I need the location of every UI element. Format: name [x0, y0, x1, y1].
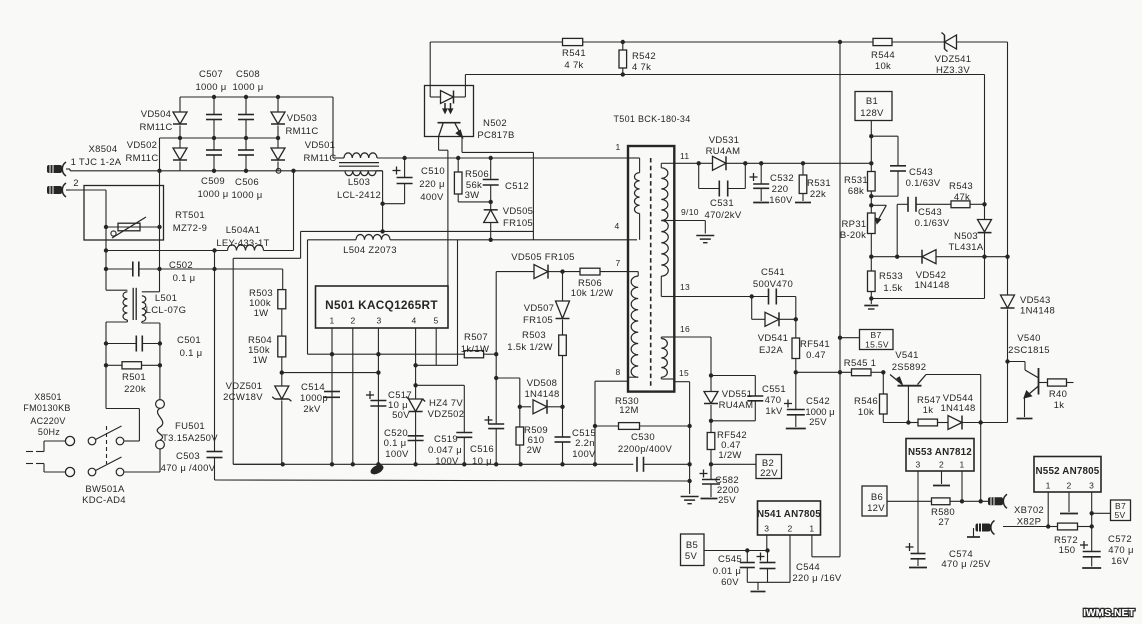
svg-text:VD543: VD543	[1020, 295, 1051, 306]
svg-text:4: 4	[411, 316, 416, 326]
connector XB702 pin 1	[988, 494, 1044, 516]
wire pin4	[415, 328, 417, 464]
switch BW501A contact 1	[65, 426, 123, 446]
svg-text:X8501: X8501	[34, 392, 62, 402]
node	[982, 255, 986, 259]
resistor R530	[595, 396, 690, 429]
svg-text:1N4148: 1N4148	[940, 403, 975, 414]
wire	[159, 227, 161, 292]
node	[157, 225, 161, 229]
wire	[377, 157, 405, 159]
resistor R503 second	[507, 320, 566, 407]
node	[593, 424, 597, 428]
svg-text:60V: 60V	[721, 577, 739, 588]
wire	[66, 169, 180, 171]
svg-text:VDZ502: VDZ502	[428, 409, 465, 420]
node	[281, 462, 285, 466]
svg-text:VD505: VD505	[503, 206, 534, 217]
node	[869, 255, 873, 259]
svg-text:C501: C501	[177, 335, 201, 346]
wire	[674, 337, 711, 376]
diode VD504	[140, 97, 188, 138]
svg-text:10k: 10k	[858, 407, 874, 418]
resistor R504 body	[248, 335, 286, 366]
svg-text:12M: 12M	[619, 405, 638, 416]
wire	[674, 221, 705, 234]
connector X8504 plug 1	[47, 144, 122, 176]
wire	[281, 357, 283, 386]
svg-text:MZ72-9: MZ72-9	[173, 223, 208, 234]
svg-text:N552 AN7805: N552 AN7805	[1036, 466, 1100, 477]
svg-text:B-20k: B-20k	[840, 230, 866, 241]
wire	[416, 385, 465, 432]
wire	[160, 137, 279, 139]
node	[104, 225, 108, 229]
svg-text:R544: R544	[871, 50, 895, 61]
diode VD551	[704, 376, 753, 421]
svg-text:0.01 μ: 0.01 μ	[713, 566, 741, 577]
node	[376, 352, 380, 375]
transistor V541 2S5892	[890, 350, 981, 423]
wire pin1 N552	[1047, 492, 1049, 527]
connector XB702 pin 2	[967, 517, 1041, 538]
svg-text:RP31: RP31	[842, 219, 867, 230]
wire	[465, 74, 984, 76]
svg-text:3: 3	[376, 316, 381, 326]
svg-text:16: 16	[680, 324, 690, 334]
svg-text:0.47: 0.47	[806, 350, 826, 361]
LED in N502	[441, 75, 466, 104]
node	[838, 336, 842, 340]
diode VD505 second	[511, 252, 575, 279]
switch BW501A contact 2	[65, 426, 126, 506]
ground	[696, 236, 714, 243]
shunt regulator N503 TL431A	[948, 220, 991, 257]
resistor R547	[908, 395, 948, 426]
svg-text:1N4148: 1N4148	[1020, 306, 1055, 317]
svg-text:0.1 μ: 0.1 μ	[180, 348, 203, 359]
wire	[376, 171, 383, 232]
transformer core	[650, 158, 652, 387]
svg-text:C545: C545	[718, 554, 742, 565]
T501 secondary 9/10-13	[661, 207, 698, 297]
svg-text:C532: C532	[770, 173, 794, 184]
wire	[180, 170, 383, 172]
capacitor C543 second	[897, 197, 950, 257]
diode VD502	[126, 138, 188, 171]
svg-text:C507: C507	[199, 69, 223, 80]
resistor R506	[454, 158, 490, 202]
svg-text:HZ3.3V: HZ3.3V	[936, 65, 970, 76]
phototransistor in N502	[438, 123, 463, 138]
node	[280, 370, 284, 374]
svg-text:220 μ: 220 μ	[419, 179, 444, 190]
capacitor C574	[906, 543, 991, 570]
wire	[106, 365, 139, 441]
svg-text:C572: C572	[1108, 534, 1132, 545]
resistor R580	[931, 498, 988, 528]
svg-text:B6: B6	[871, 492, 883, 503]
svg-text:L504A1: L504A1	[226, 225, 261, 236]
svg-text:68k: 68k	[848, 186, 864, 197]
svg-text:R542: R542	[632, 51, 656, 62]
svg-text:L504 Z2073: L504 Z2073	[343, 245, 397, 256]
svg-text:160V: 160V	[769, 195, 793, 206]
svg-text:0.1/63V: 0.1/63V	[906, 178, 941, 189]
voltage label B6	[862, 486, 887, 516]
svg-text:2.2n: 2.2n	[575, 438, 595, 449]
svg-text:VD531: VD531	[709, 135, 740, 146]
node	[709, 462, 713, 466]
resistor R531 22k	[795, 163, 831, 202]
svg-text:N502: N502	[483, 118, 507, 129]
wire	[430, 42, 440, 97]
svg-text:FR105: FR105	[503, 218, 533, 229]
capacitor C551	[711, 376, 786, 421]
resistor R572	[1048, 523, 1092, 556]
svg-text:VD505 FR105: VD505 FR105	[511, 252, 575, 263]
T501 secondary 16-15	[661, 324, 690, 379]
wire	[583, 41, 1008, 43]
svg-text:470 μ /25V: 470 μ /25V	[941, 559, 991, 570]
svg-text:1000p: 1000p	[300, 393, 328, 404]
capacitor C519	[428, 433, 472, 468]
svg-text:4 7k: 4 7k	[564, 60, 583, 71]
svg-text:C541: C541	[761, 267, 785, 278]
node	[838, 370, 842, 374]
svg-text:RM11C: RM11C	[126, 153, 159, 164]
svg-text:RM11C: RM11C	[304, 153, 337, 164]
svg-text:1000 μ: 1000 μ	[195, 82, 226, 93]
svg-text:1: 1	[1046, 481, 1051, 491]
wire	[548, 271, 563, 273]
node	[1046, 524, 1050, 528]
capacitor C507	[195, 69, 226, 138]
svg-text:100V: 100V	[572, 449, 596, 460]
svg-text:VD541: VD541	[758, 333, 789, 344]
capacitor C520	[384, 428, 424, 460]
resistor R40	[1039, 379, 1074, 411]
ground	[751, 582, 766, 591]
diode VD508	[520, 378, 563, 414]
svg-text:10k 1/2W: 10k 1/2W	[571, 288, 614, 299]
wire	[139, 269, 283, 290]
svg-text:L503: L503	[348, 177, 370, 188]
resistor R543	[916, 181, 985, 208]
wire	[1007, 42, 1009, 295]
svg-text:2S5892: 2S5892	[892, 362, 927, 373]
svg-text:C530: C530	[631, 432, 655, 443]
svg-text:VD503: VD503	[287, 113, 318, 124]
svg-text:KDC-AD4: KDC-AD4	[82, 495, 126, 506]
svg-text:2CW18V: 2CW18V	[223, 392, 263, 403]
wire	[430, 41, 562, 43]
svg-text:FR105: FR105	[523, 315, 553, 326]
wire	[496, 378, 520, 407]
wire pin1 N553	[961, 471, 963, 501]
diode VD543	[1001, 295, 1056, 423]
wire pin3	[377, 328, 379, 464]
wire	[124, 449, 160, 472]
node	[1005, 359, 1009, 363]
svg-text:9/10: 9/10	[681, 207, 699, 217]
ink blob	[369, 463, 385, 477]
node	[104, 267, 217, 271]
wire	[674, 162, 698, 164]
ground pin2 N553	[933, 471, 950, 486]
node	[709, 373, 713, 377]
svg-text:C516: C516	[470, 444, 494, 455]
node	[489, 238, 493, 242]
svg-text:VD507: VD507	[524, 303, 555, 314]
svg-text:1k: 1k	[923, 405, 934, 416]
svg-text:13: 13	[680, 282, 690, 292]
svg-text:C542: C542	[806, 396, 830, 407]
svg-text:7: 7	[615, 258, 620, 268]
inductor L504A1	[216, 225, 269, 251]
diode VD503	[271, 97, 319, 138]
svg-text:R533: R533	[879, 271, 903, 282]
node	[489, 200, 493, 204]
wire pin3 N541	[766, 535, 768, 551]
capacitor C508	[232, 69, 263, 138]
svg-text:5V: 5V	[685, 551, 698, 562]
svg-text:EJ2A: EJ2A	[759, 345, 783, 356]
wire	[747, 535, 790, 582]
svg-text:X82P: X82P	[1017, 517, 1041, 528]
svg-text:C544: C544	[796, 562, 820, 573]
wire	[984, 75, 986, 220]
svg-text:C551: C551	[762, 384, 786, 395]
node	[982, 202, 986, 206]
svg-text:27: 27	[938, 517, 949, 528]
watermark	[1083, 608, 1135, 619]
node	[869, 296, 873, 300]
wire	[281, 309, 283, 336]
svg-text:T3.15A250V: T3.15A250V	[162, 433, 218, 444]
wire	[689, 382, 691, 494]
resistor RF541	[792, 319, 830, 372]
svg-text:470/2kV: 470/2kV	[705, 210, 742, 221]
capacitor C572	[1080, 534, 1134, 568]
wire	[333, 97, 344, 158]
wire	[106, 344, 160, 366]
svg-text:N553 AN7812: N553 AN7812	[908, 447, 972, 458]
wire rail 15.5V	[839, 42, 841, 557]
svg-text:8: 8	[615, 367, 620, 377]
resistor R533	[868, 257, 903, 304]
svg-text:1 TJC 1-2A: 1 TJC 1-2A	[71, 157, 122, 168]
svg-text:L501: L501	[155, 293, 177, 304]
wire	[383, 184, 405, 204]
wire	[674, 296, 751, 298]
node	[157, 169, 161, 173]
svg-text:V540: V540	[1017, 333, 1040, 344]
node	[979, 499, 983, 503]
node	[745, 548, 770, 552]
node	[794, 370, 798, 374]
svg-text:3W: 3W	[465, 190, 480, 201]
svg-text:VDZ501: VDZ501	[226, 381, 263, 392]
svg-text:4 7k: 4 7k	[632, 62, 651, 73]
node	[518, 405, 565, 409]
wire pin5	[435, 328, 437, 365]
svg-text:47k: 47k	[954, 192, 970, 203]
inductor L504	[343, 234, 397, 256]
capacitor C501	[106, 335, 202, 359]
svg-text:2W: 2W	[527, 445, 542, 456]
transistor V540 2SC1815	[1008, 333, 1050, 419]
svg-text:R543: R543	[949, 181, 973, 192]
node	[621, 72, 625, 76]
node	[1090, 511, 1094, 529]
capacitor C541	[752, 267, 796, 305]
svg-text:R531: R531	[844, 175, 868, 186]
svg-text:B5: B5	[686, 540, 698, 551]
svg-text:IWMS.NET: IWMS.NET	[1083, 608, 1135, 619]
node	[687, 424, 691, 428]
svg-text:1.5k: 1.5k	[883, 283, 902, 294]
diode VD544	[940, 393, 1007, 430]
node	[104, 341, 162, 345]
node	[709, 419, 713, 423]
svg-text:C510: C510	[421, 166, 445, 177]
diode VD505	[484, 202, 534, 240]
svg-text:R503: R503	[522, 330, 546, 341]
wire	[532, 152, 534, 239]
svg-text:2kV: 2kV	[303, 404, 321, 415]
svg-text:2: 2	[350, 316, 355, 326]
svg-text:1000 μ: 1000 μ	[232, 82, 263, 93]
zener VDZ501	[223, 381, 291, 464]
capacitor C503	[161, 451, 234, 480]
wire emitter	[462, 137, 533, 153]
svg-text:RT501: RT501	[175, 210, 205, 221]
svg-text:100V: 100V	[435, 456, 459, 467]
wire	[106, 268, 133, 270]
wire primary ground rail	[215, 479, 692, 483]
wire	[887, 500, 932, 502]
svg-text:C503: C503	[176, 451, 200, 462]
wire	[264, 171, 294, 251]
resistor R542	[619, 42, 656, 75]
wire	[416, 240, 458, 365]
capacitor C502	[133, 260, 196, 284]
wire	[214, 251, 216, 452]
capacitor C510	[393, 158, 445, 203]
svg-text:3: 3	[764, 524, 769, 534]
node	[1005, 255, 1009, 259]
ground pin2 N552	[1060, 492, 1078, 514]
node	[621, 40, 625, 44]
svg-text:50V: 50V	[392, 410, 410, 421]
capacitor C530	[618, 432, 673, 472]
wire	[301, 230, 383, 232]
svg-text:10k: 10k	[875, 61, 891, 72]
svg-text:1W: 1W	[254, 308, 269, 319]
svg-text:470: 470	[765, 395, 782, 406]
svg-text:X8504: X8504	[89, 144, 118, 155]
capacitor C515	[555, 407, 597, 465]
svg-text:N541 AN7805: N541 AN7805	[757, 509, 821, 520]
wire	[796, 371, 852, 373]
capacitor C506	[231, 138, 262, 201]
svg-text:2: 2	[1066, 481, 1071, 491]
wire pin3 N553	[917, 471, 919, 554]
svg-text:22k: 22k	[810, 189, 826, 200]
diode VD501	[271, 138, 337, 171]
svg-text:VD504: VD504	[141, 109, 172, 120]
potentiometer RP31	[840, 205, 886, 256]
T501 secondary 11-9/10	[661, 151, 689, 221]
resistor R507	[461, 332, 489, 358]
svg-text:R545 1: R545 1	[844, 358, 876, 369]
resistor R501	[106, 362, 160, 395]
wire	[1003, 526, 1048, 528]
wire	[984, 257, 986, 299]
capacitor C516	[470, 272, 504, 467]
inductor L503	[337, 153, 381, 201]
capacitor C514	[300, 382, 340, 415]
wire pin1 N541	[812, 535, 840, 557]
wire	[106, 322, 160, 344]
wire	[704, 550, 768, 552]
svg-text:220 μ /16V: 220 μ /16V	[792, 573, 842, 584]
svg-text:R507: R507	[464, 332, 488, 343]
resistor R545	[844, 358, 884, 376]
wire	[390, 239, 637, 241]
node	[697, 161, 874, 165]
svg-text:2: 2	[787, 524, 792, 534]
resistor R541	[562, 38, 586, 71]
svg-text:C543: C543	[909, 167, 933, 178]
node	[330, 462, 692, 466]
svg-text:5: 5	[433, 316, 438, 326]
diode VD531	[699, 135, 872, 170]
zener VDZ541	[935, 33, 972, 77]
svg-text:2200p/400V: 2200p/400V	[618, 444, 673, 455]
svg-text:R40: R40	[1049, 389, 1067, 400]
wire	[484, 353, 497, 355]
voltage label B7	[840, 330, 893, 350]
wire pin1	[331, 328, 333, 464]
node	[276, 168, 281, 173]
wire	[26, 464, 66, 473]
capacitor C545	[713, 551, 755, 589]
svg-text:XB702: XB702	[1014, 505, 1044, 516]
svg-text:R546: R546	[854, 396, 878, 407]
resistor R544	[871, 38, 895, 72]
fuse FU501	[156, 400, 219, 449]
capacitor C509	[197, 138, 228, 200]
svg-text:1000 μ: 1000 μ	[231, 190, 262, 201]
svg-text:VD551: VD551	[722, 389, 753, 400]
wire	[282, 372, 379, 374]
wire	[496, 271, 534, 273]
svg-text:T501 BCK-180-34: T501 BCK-180-34	[613, 114, 690, 124]
svg-text:1k/1W: 1k/1W	[461, 344, 489, 355]
svg-text:C508: C508	[236, 69, 260, 80]
svg-text:C519: C519	[434, 434, 458, 445]
wire pin3 N552	[1091, 492, 1093, 552]
wire	[105, 227, 107, 290]
wire	[307, 240, 309, 354]
capacitor C543 first	[871, 136, 940, 196]
capacitor C512	[483, 158, 529, 202]
node	[104, 363, 162, 367]
node	[750, 294, 754, 298]
resistor R503	[249, 288, 286, 319]
